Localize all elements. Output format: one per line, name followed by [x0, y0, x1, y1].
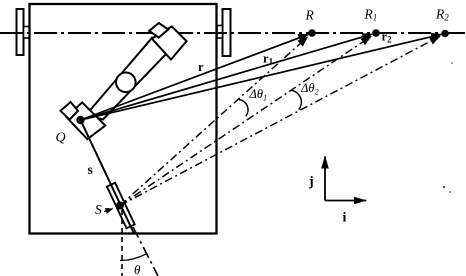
arc theta	[120, 254, 146, 260]
svg-text:Δθ2: Δθ2	[300, 81, 319, 97]
right pin block	[217, 26, 223, 39]
svg-text:Q: Q	[56, 131, 66, 146]
dash-dot vector S to R1	[120, 36, 371, 205]
svg-text:θ: θ	[134, 262, 141, 276]
scan speckles	[443, 186, 445, 188]
point R1	[372, 29, 380, 37]
link rod QH	[86, 38, 167, 120]
head block H	[152, 26, 187, 59]
svg-text:r: r	[198, 60, 204, 74]
point R	[308, 29, 316, 37]
Q cap	[61, 102, 79, 120]
point S	[116, 202, 124, 210]
axes: j vertical	[324, 157, 326, 201]
pin hole circle on rod	[116, 73, 136, 93]
svg-text:R2: R2	[435, 7, 449, 23]
head cap	[149, 23, 168, 38]
centerline (horizontal dash-dot axis)	[0, 32, 466, 34]
arc delta-theta-2	[291, 90, 301, 109]
svg-text:i: i	[343, 211, 347, 226]
frame box	[30, 4, 217, 234]
S pointer arrow	[104, 209, 113, 212]
vector r2 : Q to R2	[81, 34, 442, 120]
left roller	[17, 9, 24, 55]
Q block	[66, 102, 105, 139]
svg-text:r1: r1	[263, 52, 274, 67]
svg-text:j: j	[308, 175, 314, 190]
dashed vertical below S	[121, 210, 123, 276]
axes: i horizontal	[325, 200, 366, 202]
rod line Q to S	[81, 120, 135, 234]
point R2	[441, 30, 449, 38]
point Q	[76, 116, 84, 124]
svg-text:r2: r2	[382, 30, 393, 45]
svg-text:Δθ1: Δθ1	[249, 87, 268, 103]
left pin block	[24, 27, 30, 39]
right roller	[223, 9, 231, 56]
vector r : Q to R	[81, 34, 309, 120]
slider block at S	[107, 183, 135, 228]
arc delta-theta-1	[239, 100, 249, 117]
svg-text:R: R	[305, 8, 315, 23]
dash-dot vector S to R2	[120, 36, 440, 205]
svg-text:S: S	[95, 202, 102, 217]
vector r1 : Q to R1	[81, 34, 373, 120]
dash-dot rod extension below box	[133, 227, 158, 276]
svg-text:s: s	[88, 162, 93, 177]
dash-dot vector S to R	[120, 37, 308, 206]
svg-text:R1: R1	[364, 7, 378, 23]
